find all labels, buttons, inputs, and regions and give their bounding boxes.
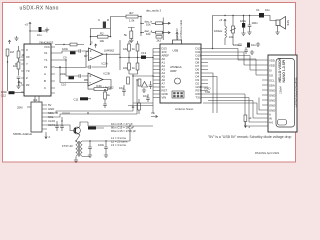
wire from +5V to C8 [30,26,38,31]
svg-text:10k: 10k [123,66,128,70]
svg-text:+5: +5 [219,18,223,22]
capacitor C13 polarized [141,56,146,59]
wire IC1 pin to opamp1 [55,51,89,53]
svg-text:4-0: 4-0 [269,121,273,125]
svg-text:10u: 10u [119,86,124,90]
resistor R2 [17,51,20,58]
svg-text:C: C [98,18,100,22]
decoupling cap 2 near OLED [244,50,248,51]
svg-text:10k: 10k [100,39,105,43]
svg-text:C10: C10 [61,83,67,87]
svg-text:25M: 25M [17,106,23,110]
page background [0,0,300,168]
svg-text:C9: C9 [63,56,67,60]
svg-text:SI: SI [269,69,272,73]
svg-text:GND: GND [269,89,275,93]
wires IC1 to IC2 [35,96,39,102]
inductor L audio [225,26,227,38]
nano +5V arrow [176,32,178,36]
wires nano A4 A5 to OLED [208,73,217,113]
svg-text:A: A [44,72,46,76]
svg-text:10u: 10u [143,94,148,98]
IC2 right pin stubs [42,105,47,129]
resistor right mid [138,103,141,110]
wire C12 to IC1 [15,92,25,94]
svg-text:10k: 10k [146,32,151,36]
capacitor C8 (polarized) [39,27,42,32]
schematic sheet white area with red frame [3,3,296,163]
wire T2 secondary [82,141,90,157]
svg-text:128x64: 128x64 [280,85,283,94]
svg-text:FT37-43: FT37-43 [62,144,73,148]
opamp1 output wire [107,53,114,55]
speaker ground [277,26,279,31]
svg-text:R2: R2 [100,32,104,36]
resistor R3 [17,62,20,69]
wire ladder to nano [146,57,153,59]
svg-text:Z: Z [26,76,28,80]
capacitor C1 polarized [259,13,264,18]
svg-text:L3 = 4 turns: L3 = 4 turns [111,143,126,147]
supply bus left [140,17,142,37]
svg-text:10k: 10k [13,64,18,68]
svg-text:Z0: Z0 [26,83,30,87]
svg-text:+5: +5 [25,23,29,27]
svg-text:SPK: SPK [286,20,290,26]
svg-text:Rbw C15 = 2700 pF: Rbw C15 = 2700 pF [111,129,136,133]
svg-text:100n: 100n [98,143,105,147]
svg-text:10u: 10u [37,33,42,37]
+5V arrow above opamp1 [95,44,97,48]
capacitor C9 [79,74,80,78]
speaker SPK [276,20,280,26]
wire R1 down [7,56,9,91]
IC2 Si5351 body [31,102,42,132]
resistor pull near OLED [244,115,247,122]
long bus wires to nano [62,76,137,114]
wire IC1 pin4 long [55,68,88,83]
OLED pin stubs [262,60,268,126]
svg-text:via USB-bus cable: via USB-bus cable [179,19,183,42]
cap below resistor [103,104,107,105]
svg-text:Y1: Y1 [44,58,48,62]
svg-text:1.0k: 1.0k [129,19,135,23]
svg-text:2k2: 2k2 [157,38,162,42]
inductor bead L2 [103,22,106,29]
svg-text:10k: 10k [146,23,151,27]
svg-text:R: R [107,18,109,22]
svg-text:4k7: 4k7 [129,11,134,15]
cap 10u right mid [146,98,150,99]
+5V supply arrow [29,22,31,26]
svg-text:C1: C1 [256,8,260,12]
wires nano bottom right [203,94,262,126]
svg-text:10u: 10u [265,8,270,12]
resistor ladder R lower left [128,63,131,70]
svg-text:IC2A: IC2A [102,62,108,66]
junction dots bus [65,59,66,60]
decoupling cap near OLED [238,44,242,45]
svg-text:LM4562: LM4562 [104,49,115,53]
power marks above IC2 [18,81,20,86]
long wire bottom [88,122,153,126]
svg-text:10u: 10u [251,43,256,47]
svg-text:GND: GND [269,94,275,98]
svg-text:Si5351 Adafruit: Si5351 Adafruit [13,132,32,136]
cap at T1 black [88,127,96,130]
ground top right [256,42,260,46]
svg-text:uSDX-RX Nano: uSDX-RX Nano [20,6,59,12]
capacitor C12 (black) [9,91,15,94]
svg-text:C: C [44,86,46,90]
svg-text:328P: 328P [170,69,177,73]
ground arrow below OLED [244,122,246,128]
opamp2 feedback resistor [94,88,108,91]
capacitor near buffer [149,85,153,86]
feedback cap opamp1 [89,65,90,69]
wire T1 to T2 [76,135,80,158]
resistor R11 horizontal [126,15,138,18]
resistor R1 [6,49,9,56]
rail small box [156,36,162,39]
OLED inner rounded [276,59,295,128]
IC2 left pin crystal label [27,106,31,108]
svg-text:C11: C11 [74,98,79,102]
svg-text:100n: 100n [252,21,259,25]
resistor ladder R lower right [136,63,139,70]
ground at C8 [45,28,49,32]
ground audio caps [241,31,245,35]
ground left column [16,84,20,88]
svg-text:Z1: Z1 [44,65,48,69]
svg-text:R8: R8 [84,78,88,82]
wire IC1 pin to opamp2 [55,60,88,76]
nano right pin stubs [201,49,208,98]
wire R2 to IC1 [19,46,25,62]
wire amp to speaker [213,16,260,49]
svg-text:R7: R7 [84,54,88,58]
svg-text:TX1: TX1 [196,96,202,100]
capacitor C10 [79,49,80,53]
transistor T1 [74,128,76,133]
wire C1 to speaker [264,16,276,21]
svg-text:IC2: IC2 [33,98,38,102]
svg-text:Vin: Vin [151,111,155,115]
resistor ladder R upper right [136,44,139,51]
svg-text:C13: C13 [141,51,147,55]
ground symbol left of IC1 [14,36,18,40]
ground arrow below IC2 [45,132,47,139]
svg-text:100n: 100n [62,47,69,51]
nano USB connector [173,40,182,47]
capacitor C14 [122,90,126,91]
svg-text:dac_audio 2: dac_audio 2 [146,9,162,13]
svg-text:Y0: Y0 [26,69,30,73]
loop wires around L2 [91,17,127,45]
pot 10k [232,26,235,33]
OLED notch [278,120,287,126]
coupling cap blob A [70,51,76,54]
svg-text:Y: Y [26,62,28,66]
resistor ladder R upper left [128,44,131,51]
wire R3 to cap [18,69,20,76]
ground under T2 [74,158,78,162]
opamp1 feedback loop with cap [86,52,107,68]
resistor mid lower [127,77,130,84]
svg-text:SDA: SDA [269,84,275,88]
svg-text:GND: GND [269,99,275,103]
svg-text:NANO 1.3 SPI: NANO 1.3 SPI [282,60,286,83]
resistor below tee [130,31,133,39]
svg-text:100uH: 100uH [214,29,222,33]
nano crystal circle [175,78,181,84]
capacitor 100n audio [248,25,252,26]
resistor divider lower [138,79,141,86]
svg-text:100n: 100n [233,43,240,47]
svg-text:10k: 10k [229,35,234,39]
cap to ground 1 [88,147,92,148]
junction dot bus y113 [87,112,88,113]
transformer T2 FT37-43 [76,141,82,157]
svg-text:SCL: SCL [269,79,275,83]
supply bus right with arrows [163,18,170,41]
svg-text:IC4b: IC4b [96,84,102,88]
resistor below opamp2 [104,92,107,99]
coupling cap blob B [69,76,75,79]
svg-text:220n: 220n [60,72,67,76]
svg-text:X0: X0 [26,55,30,59]
IC1 right pin stubs [51,47,55,93]
cap at IC2 [55,126,59,127]
opamp2 ground cap C11 [80,97,88,100]
nano body [160,44,201,103]
svg-text:C12: C12 [1,93,7,97]
svg-text:VDD: VDD [269,59,275,63]
ladder wires [113,40,141,74]
svg-text:VDD: VDD [269,64,275,68]
capacitor audio polarized [242,23,245,28]
virtual ground buffer triangle [142,82,148,88]
wires SDA SCL to nano [47,111,70,117]
capacitor left column [17,77,21,78]
svg-text:TXD: TXD [205,90,211,94]
wire CLK to transistor [47,125,74,131]
svg-text:IC2B: IC2B [104,72,110,76]
svg-text:Arduino Nano: Arduino Nano [175,107,194,111]
nano ISP header [172,91,184,98]
cap2 at IC2 [60,126,64,127]
svg-text:USB: USB [173,49,179,53]
IC1 left pin stubs [21,50,24,92]
lower wire to nano [133,74,153,76]
svg-text:"5V" is a "USB 5V" remark: Sch: "5V" is a "USB 5V" remark: Schottky diod… [208,135,292,139]
svg-text:X: X [26,48,28,52]
wire +5V down to IC1 [29,31,31,44]
wire C8 to ground [42,30,48,32]
svg-text:VIN: VIN [162,96,167,100]
+5V arrow small [8,40,10,44]
svg-text:1.3 INCH OLED SH1106 I2C: 1.3 INCH OLED SH1106 I2C [295,77,298,108]
svg-text:1M: 1M [10,50,15,54]
resistor R5 horizontal [70,43,77,46]
OLED outer [268,55,297,132]
resistor mid-top [98,35,109,38]
svg-text:VCC: VCC [44,45,50,49]
wire T1 collector [80,122,104,128]
svg-text:10k: 10k [123,47,128,51]
cap to ground 2 [104,147,108,148]
cap C11 polarized [247,43,250,48]
svg-text:X1: X1 [44,51,48,55]
wire bus under nano [128,49,153,114]
IC1 body [24,44,51,96]
ground below buffer [142,88,146,92]
svg-text:GND: GND [269,104,275,108]
wire RF out [90,128,130,141]
svg-text:PA3ANG April 2021: PA3ANG April 2021 [255,151,280,155]
+5V arrow audio [224,19,226,23]
svg-text:B: B [44,79,46,83]
ground tee mid [128,28,135,32]
nano left pin stubs [153,49,160,98]
